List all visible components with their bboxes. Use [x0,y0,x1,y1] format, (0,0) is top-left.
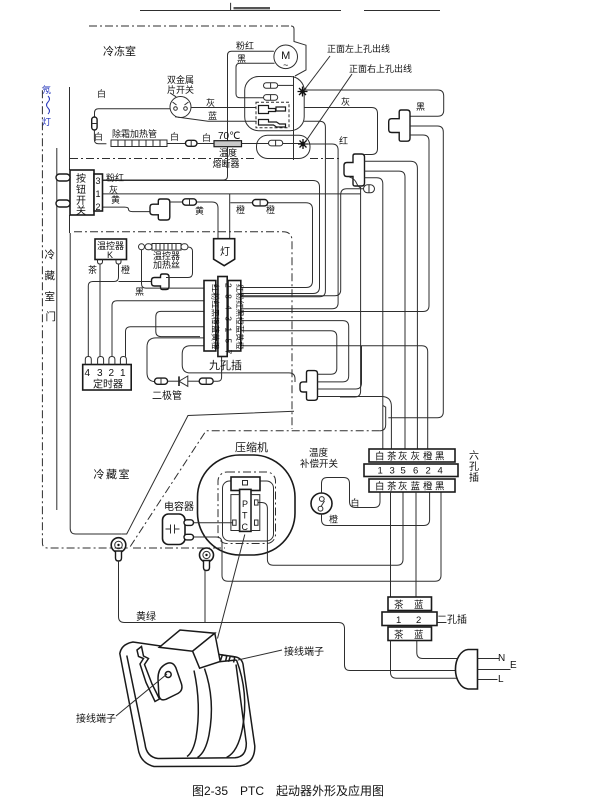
svg-text:3: 3 [390,466,395,477]
fridge inner wall diagonal [122,411,294,534]
top border line [140,3,440,11]
wire capacitor bottom pin down around to pin4 v [194,492,442,581]
svg-text:橙: 橙 [329,514,338,525]
fridge door line [56,148,58,510]
svg-text:灰: 灰 [411,451,421,463]
six-hole plug 六孔插 [364,449,458,493]
svg-text:2: 2 [109,368,115,379]
T3 wire4 to pin3 [318,397,392,450]
svg-text:橙: 橙 [236,204,245,215]
wire 2hole pin2 to plug N [417,641,458,659]
svg-text:熔断器: 熔断器 [213,158,240,169]
dash-dot bottom extension under compressor [133,547,225,549]
plug T5 [150,199,170,220]
svg-text:孔: 孔 [469,461,479,473]
starter clip strip [137,647,160,702]
orange capsule [253,200,268,206]
plug T2 [344,154,365,186]
svg-text:C: C [242,522,249,532]
push button switch 按钮开关 [70,170,103,217]
wire motor black [236,63,275,97]
svg-text:T: T [242,511,248,521]
capsule on white wire [92,117,97,130]
svg-text:2 8 4 3 1 5 7: 2 8 4 3 1 5 7 [224,283,234,356]
dash-dot fridge wall with end hook [42,87,379,548]
wire capacitor top pin to PTC [194,522,233,524]
svg-text:E: E [510,660,517,671]
wire capsule down to heater line [94,130,106,144]
switch pin capsule top [56,174,70,181]
capsule below T2 [364,185,375,193]
compressor ground terminal [200,548,214,571]
svg-text:接线端子: 接线端子 [284,645,324,658]
wire T1 out to 9hole lower entry [240,135,429,312]
wire PTC right to pin5 v [258,492,403,565]
wire pink long from switch [102,181,320,294]
PTC callout line to starter [218,535,245,639]
svg-text:补偿开关: 补偿开关 [300,458,339,470]
T3 wire2 up to 9hole [240,321,349,382]
lamp right wire [229,194,231,239]
svg-text:蓝: 蓝 [208,110,217,121]
svg-text:3: 3 [96,176,101,186]
wire bimetal left white [95,109,171,117]
svg-text:黄: 黄 [111,194,120,205]
svg-text:1: 1 [96,189,101,199]
svg-text:冷: 冷 [45,248,56,261]
wire gray long from switch [102,187,361,397]
wire cluster red to right [283,143,304,145]
plug T1 [389,110,410,141]
svg-text:二极管: 二极管 [152,389,182,402]
terminal hook bottom [259,120,286,128]
svg-text:2: 2 [416,615,421,626]
svg-text:K: K [107,250,113,260]
svg-text:黄绿: 黄绿 [136,610,156,623]
cluster capsule 1 [264,83,278,89]
power plug [455,650,510,690]
svg-text:冷冻室: 冷冻室 [103,44,136,58]
starter cylinder band line 1 [198,669,212,758]
svg-text:白: 白 [375,451,385,463]
wire T2 mid to pin5 [365,171,406,449]
svg-text:蓝: 蓝 [411,481,421,493]
svg-text:除霜加热管: 除霜加热管 [112,128,157,139]
wire 6hole pin6 to 2hole [415,492,417,597]
starter inner casing line [127,656,247,759]
wire motor pink [102,51,274,180]
svg-text:白: 白 [202,132,211,143]
svg-text:灯: 灯 [42,117,51,127]
svg-text:黑: 黑 [416,102,425,112]
svg-text:灰: 灰 [341,96,350,107]
callout line1 [305,56,330,89]
svg-text:L: L [498,674,504,685]
plug T3 [300,371,318,401]
ground branch up to compressor terminal [204,571,206,623]
svg-text:黄: 黄 [195,205,204,216]
thermostat heater 温控器加热丝 [139,244,189,251]
svg-text:2: 2 [426,466,431,477]
svg-text:温度: 温度 [219,147,237,158]
svg-text:~: ~ [283,60,288,70]
ground terminal 1 [111,538,126,561]
wire under-plug right portion down to sixhole pin2 [240,346,428,449]
svg-text:2: 2 [96,202,101,212]
svg-text:4: 4 [85,368,91,379]
wire K right + T4 to timer pin4 [88,264,118,357]
starter cylinder top edge [219,660,237,662]
svg-text:加热丝: 加热丝 [153,259,180,270]
svg-text:橙: 橙 [121,264,130,275]
svg-text:茶: 茶 [394,599,404,611]
svg-text:N: N [498,653,505,664]
svg-text:白: 白 [375,481,385,493]
wire bimetal blue [175,117,257,122]
switch pin capsule bottom [56,200,70,207]
wire under-plug line to T3 [182,346,295,382]
label 冷藏室门 vertical [45,248,57,323]
svg-text:灯: 灯 [220,246,230,258]
wire heater2 right down to T4 [166,247,193,278]
wire capsule left to 9hole entry [240,189,364,296]
dashed terminal box [256,102,289,128]
lamp 灯 [214,239,235,266]
svg-text:黑: 黑 [237,54,246,64]
PTC starter drawing [120,630,255,767]
wire red down to 9hole entry [240,144,338,309]
starburst left-top hole [298,87,308,97]
svg-text:二孔插: 二孔插 [437,613,467,626]
svg-text:氖: 氖 [42,84,51,95]
starter top tabs [221,655,235,663]
svg-text:茶: 茶 [88,264,97,275]
starter cylinder band line 2 [187,671,198,757]
svg-text:接线端子: 接线端子 [76,712,116,725]
svg-text:正面右上孔出线: 正面右上孔出线 [349,63,412,74]
svg-text:粉红: 粉红 [106,172,124,183]
svg-text:灰: 灰 [206,97,215,108]
svg-text:黑: 黑 [135,287,144,297]
motor enclosure boundary [291,26,306,76]
svg-text:关: 关 [76,204,86,217]
svg-text:温度: 温度 [309,447,329,459]
svg-text:4: 4 [438,466,443,477]
svg-text:红: 红 [339,135,348,146]
starter outer casing [120,642,255,767]
thermostat K box 温控器K [95,239,127,264]
wire heater2 left down to 9hole [142,250,205,288]
wire bimetal right gray [191,107,256,109]
svg-text:按: 按 [76,172,86,185]
thermal fuse 温度熔断器 [214,141,242,147]
motor riser vertical [293,76,295,160]
starter cover box top face [159,630,215,651]
svg-text:茶: 茶 [394,629,404,641]
horizontal to plug E [350,670,458,672]
wire T4 stem left [119,281,156,283]
wire heater to fuse [167,143,186,145]
svg-text:门: 门 [46,310,57,323]
svg-text:压缩机: 压缩机 [235,440,268,454]
svg-text:白: 白 [94,131,103,142]
wire gray U-turn [304,108,378,155]
wire 9hole stepped line [156,311,204,336]
svg-text:九孔插: 九孔插 [209,358,242,372]
wire black U-turn [304,90,444,116]
wire T2 stem jog to gray riser [349,177,361,188]
starter flag terminal [158,663,182,700]
svg-text:P: P [242,499,248,509]
T3 wire1 up to 9hole [240,331,337,375]
wire 6hole pin3 to 2hole [390,492,392,597]
callout line right label to tabs [238,650,282,660]
svg-text:蓝: 蓝 [414,629,424,641]
T3 wire3 up to under-plug line [318,346,362,389]
svg-text:藏: 藏 [45,270,56,282]
wire K left to timer pin3 [99,264,101,357]
svg-text:双金属: 双金属 [167,74,194,85]
svg-text:钮: 钮 [76,183,86,196]
wire capsule1 to motor riser [278,84,294,86]
nine-hole plug 九孔插 [204,277,245,357]
wire white S to 6hole [322,478,381,508]
ground wire yellow-green to plug E [119,561,357,671]
svg-text:定时器: 定时器 [93,378,123,391]
wire 9hole to timer pin1 [126,327,205,357]
two-hole plug 二孔插 [382,597,437,641]
blue handwriting [42,84,51,127]
wire T1 out to junction line [388,126,443,418]
svg-text:茶: 茶 [387,451,397,463]
lower cluster capsule [269,140,283,146]
svg-text:图2-35 PTC 起动器外形及应用图: 图2-35 PTC 起动器外形及应用图 [192,783,384,798]
wire fuse to cluster capsule [197,143,269,145]
svg-text:冷藏室: 冷藏室 [94,467,132,481]
freezer left wall [69,87,71,233]
timer 定时器 [83,357,132,391]
fuse left capsule [186,140,198,146]
svg-text:橙: 橙 [266,204,275,215]
svg-text:3: 3 [97,368,103,379]
svg-text:红粉红黑橙蓝黄橙: 红粉红黑橙蓝黄橙 [211,284,221,350]
svg-text:黑: 黑 [435,452,445,463]
plug T4 [152,274,170,290]
svg-text:白: 白 [170,131,179,142]
svg-text:橙: 橙 [423,481,433,493]
callout line2 [306,74,352,141]
svg-text:茶: 茶 [387,481,397,493]
svg-text:正面左上孔出线: 正面左上孔出线 [327,43,390,54]
wire orange to 6hole [322,492,430,526]
wire T2 bottom to pin1 vertical [365,178,383,449]
svg-text:插: 插 [469,471,479,484]
tick mark [230,3,232,11]
fridge box left wall [70,233,122,534]
svg-text:六: 六 [469,450,479,462]
svg-text:5: 5 [401,466,406,477]
wire T2 top to pin6 [365,161,418,449]
starter cover box front face [193,633,221,668]
freezer compartment dash-dot top [89,25,291,27]
wire orange-capsule line to 9hole entry [230,203,312,288]
svg-text:1: 1 [120,368,126,379]
terminal hook top [259,106,286,114]
cluster capsule 2 [264,95,278,101]
svg-text:黑: 黑 [435,482,445,493]
freezer floor dash-dot [70,158,342,160]
wire 9hole to diode [147,338,204,382]
diode 二极管 [155,354,222,387]
svg-text:橙: 橙 [423,451,433,463]
svg-text:灰: 灰 [109,184,118,195]
wire T5 right through yellow capsule to lamp [170,202,218,239]
svg-text:1: 1 [396,615,401,626]
svg-text:白: 白 [97,88,106,99]
svg-text:电容器: 电容器 [164,500,194,513]
svg-text:红粉红黑橙蓝黄橙: 红粉红黑橙蓝黄橙 [235,284,245,350]
svg-text:灰: 灰 [398,451,408,463]
callout line left label to flag [116,674,167,716]
wire 2hole pin1 to plug L [391,641,457,679]
svg-text:蓝: 蓝 [414,599,424,611]
starburst right-top hole [298,139,308,149]
svg-text:1: 1 [378,466,383,477]
wire 9hole to timer pin2 [112,301,204,357]
wire blue down to 9hole entry [240,121,325,296]
svg-text:室: 室 [45,290,56,303]
terminal cluster box [245,77,305,131]
svg-text:6: 6 [413,466,418,477]
yellow capsule [183,199,197,205]
motor M [274,45,298,70]
svg-text:粉红: 粉红 [236,40,254,51]
wire yellow from switch to T5 [102,207,151,212]
svg-text:灰: 灰 [398,481,408,493]
lower cluster box [257,135,311,158]
fridge compartment dash-dot box [74,232,292,429]
starter cylinder outer arc [227,660,245,758]
